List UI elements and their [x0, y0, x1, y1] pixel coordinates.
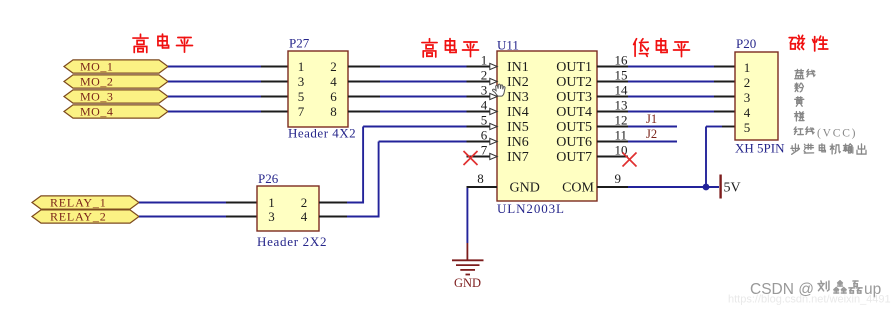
pin stub U11 pin 12 [597, 126, 628, 128]
pin stub P26 pin 4 [319, 216, 347, 218]
svg-text:COM: COM [562, 181, 594, 196]
ground symbol bars [452, 259, 484, 261]
svg-text:J1: J1 [646, 112, 657, 126]
net label flag MO_4 [64, 105, 168, 118]
svg-text:3: 3 [744, 90, 751, 105]
svg-text:P26: P26 [258, 171, 279, 186]
pin stub P20 pin 3 [714, 96, 735, 98]
pin stub U11 pin 2 [467, 81, 498, 83]
svg-text:3: 3 [298, 74, 305, 89]
svg-text:OUT1: OUT1 [556, 60, 592, 75]
annotation red-wire VCC label [794, 127, 803, 135]
svg-text:RELAY_2: RELAY_2 [50, 210, 107, 224]
svg-text:OUT4: OUT4 [556, 105, 592, 120]
svg-text:GND: GND [454, 276, 481, 290]
annotation high-level 2 [422, 39, 437, 57]
power symbol 5V bar [719, 175, 721, 199]
annotation magnetic [789, 35, 804, 49]
net label flag MO_2 [64, 75, 168, 88]
U11 input arrow pin 1 [490, 63, 497, 69]
svg-text:OUT3: OUT3 [556, 90, 592, 105]
svg-text:4: 4 [744, 105, 751, 120]
svg-text:9: 9 [615, 171, 622, 186]
svg-text:2: 2 [301, 195, 308, 210]
pin stub P20 pin 2 [714, 81, 735, 83]
svg-text:4: 4 [481, 98, 488, 113]
svg-text:OUT5: OUT5 [556, 120, 592, 135]
U11 input arrow pin 6 [490, 138, 497, 144]
svg-text:7: 7 [481, 143, 488, 158]
svg-text:MO_3: MO_3 [80, 90, 113, 104]
svg-text:IN2: IN2 [507, 75, 529, 90]
wire P26 pin 4 horizontal [347, 216, 380, 218]
svg-text:Header 2X2: Header 2X2 [257, 234, 327, 249]
pin stub P26 pin 3 [226, 216, 257, 218]
pin stub P27 pin 7 [261, 111, 288, 113]
wire U11 pin 8 to ground [466, 188, 468, 243]
svg-text:J2: J2 [646, 127, 657, 141]
pin stub U11 pin 3 [467, 96, 498, 98]
wire U11 OUT2 to P20 pin 2 [628, 81, 714, 83]
svg-text:OUT6: OUT6 [556, 135, 592, 150]
pin stub P27 pin 2 [348, 66, 380, 68]
pin stub U11 pin 5 [467, 126, 498, 128]
pin stub U11 pin 4 [467, 111, 498, 113]
ground symbol lead [466, 243, 468, 260]
svg-text:P20: P20 [736, 36, 756, 51]
connector P27 Header 4X2 body [288, 51, 348, 127]
svg-text:IN3: IN3 [507, 90, 529, 105]
pin stub U11 pin 10 [597, 156, 628, 158]
svg-text:IN7: IN7 [507, 150, 529, 165]
junction node COM/5V [703, 184, 710, 191]
svg-text:RELAY_1: RELAY_1 [50, 196, 107, 210]
annotation pink label [795, 83, 804, 92]
pin stub P27 pin 3 [261, 81, 288, 83]
svg-text:13: 13 [615, 98, 628, 113]
pin stub U11 pin 6 [467, 141, 498, 143]
wire P27 pin 4 to U11 IN2 [380, 81, 467, 83]
wire MO_3 to P27 pin 5 [168, 96, 261, 98]
pin stub U11 pin 8 [467, 186, 498, 188]
svg-text:MO_1: MO_1 [80, 60, 113, 74]
wire net J1 from U11 pin 12 [628, 126, 677, 128]
wire U11 OUT1 to P20 pin 1 [628, 66, 714, 68]
svg-text:ULN2003L: ULN2003L [497, 201, 565, 216]
svg-text:3: 3 [481, 83, 488, 98]
pin stub P27 pin 5 [261, 96, 288, 98]
svg-text:8: 8 [477, 171, 484, 186]
net label flag RELAY_1 [32, 196, 139, 209]
svg-text:8: 8 [330, 104, 337, 119]
pin stub P26 pin 2 [319, 202, 347, 204]
svg-text:2: 2 [744, 75, 751, 90]
svg-text:2: 2 [481, 68, 488, 83]
svg-text:MO_4: MO_4 [80, 105, 113, 119]
svg-text:3: 3 [268, 209, 275, 224]
svg-text:5: 5 [298, 89, 305, 104]
pin stub P20 pin 1 [714, 66, 735, 68]
U11 input arrow pin 7 [490, 153, 497, 159]
svg-text:https://blog.csdn.net/weixin_4: https://blog.csdn.net/weixin_4491 [728, 294, 891, 306]
svg-text:11: 11 [615, 128, 628, 143]
svg-text:OUT2: OUT2 [556, 75, 592, 90]
pin stub U11 pin 1 [467, 66, 498, 68]
svg-text:U11: U11 [497, 37, 519, 52]
no-connect X on U11 pin 7 [464, 151, 478, 165]
svg-text:MO_2: MO_2 [80, 75, 113, 89]
svg-text:14: 14 [615, 83, 629, 98]
annotation orange label [795, 112, 805, 121]
svg-text:6: 6 [330, 89, 337, 104]
U11 input arrow pin 2 [490, 78, 497, 84]
annotation high-level 1 [133, 34, 148, 52]
connector P26 Header 2X2 body [257, 186, 319, 231]
svg-text:XH 5PIN: XH 5PIN [735, 141, 785, 156]
svg-text:6: 6 [481, 128, 488, 143]
svg-text:4: 4 [301, 209, 308, 224]
wire MO_2 to P27 pin 3 [168, 81, 261, 83]
svg-text:IN5: IN5 [507, 120, 529, 135]
svg-text:1: 1 [298, 59, 305, 74]
annotation stepper motor output [791, 144, 800, 154]
pin stub P27 pin 8 [348, 111, 380, 113]
wire net J2 from U11 pin 11 [628, 141, 677, 143]
pin stub P20 pin 5 [722, 126, 735, 128]
svg-text:OUT7: OUT7 [556, 150, 592, 165]
net label flag RELAY_2 [32, 210, 139, 223]
wire U11 OUT3 to P20 pin 3 [628, 96, 714, 98]
svg-text:P27: P27 [289, 36, 310, 51]
wire vertical to U11 IN6 [378, 142, 380, 218]
svg-text:IN4: IN4 [507, 105, 529, 120]
U11 input arrow pin 3 [490, 93, 497, 99]
svg-text:5: 5 [744, 120, 751, 135]
svg-text:(VCC): (VCC) [817, 128, 857, 140]
pin stub P27 pin 1 [261, 66, 288, 68]
pin stub U11 pin 15 [597, 81, 628, 83]
svg-text:5V: 5V [724, 181, 741, 196]
wire horizontal to U11 IN5 [363, 126, 466, 128]
pin stub U11 pin 14 [597, 96, 628, 98]
svg-text:1: 1 [744, 60, 751, 75]
wire vertical to U11 IN5 [362, 127, 364, 204]
wire junction up to P20 pin 5 [705, 127, 707, 188]
wire U11 OUT4 to P20 pin 4 [628, 111, 714, 113]
wire P27 pin 2 to U11 IN1 [380, 66, 467, 68]
svg-text:1: 1 [481, 53, 488, 68]
svg-text:IN1: IN1 [507, 60, 529, 75]
svg-text:4: 4 [330, 74, 337, 89]
svg-text:5: 5 [481, 113, 488, 128]
wire P27 pin 6 to U11 IN3 [380, 96, 467, 98]
wire RELAY_2 to P26 [139, 216, 226, 218]
wire MO_4 to P27 pin 7 [168, 111, 261, 113]
wire RELAY_1 to P26 [139, 202, 226, 204]
svg-text:16: 16 [615, 53, 629, 68]
watermark CJK name [818, 281, 829, 291]
U11 input arrow pin 5 [490, 123, 497, 129]
net label flag MO_1 [64, 60, 168, 73]
pin stub U11 pin 9 [597, 186, 628, 188]
svg-text:IN6: IN6 [507, 135, 529, 150]
pin stub U11 pin 16 [597, 66, 628, 68]
pin stub U11 pin 13 [597, 111, 628, 113]
connector P20 XH 5PIN body [735, 52, 778, 140]
wire horizontal to U11 IN6 [379, 141, 467, 143]
pin stub P26 pin 1 [226, 202, 257, 204]
wire P27 pin 8 to U11 IN4 [380, 111, 467, 113]
pin stub U11 pin 11 [597, 141, 628, 143]
pin stub P27 pin 4 [348, 81, 380, 83]
svg-text:Header 4X2: Header 4X2 [288, 126, 356, 141]
wire P26 pin 2 horizontal [347, 202, 364, 204]
annotation blue-wire label [795, 69, 804, 78]
svg-text:12: 12 [615, 113, 628, 128]
svg-text:2: 2 [330, 59, 337, 74]
wire MO_1 to P27 pin 1 [168, 66, 261, 68]
U11 input arrow pin 4 [490, 108, 497, 114]
svg-text:1: 1 [268, 195, 275, 210]
mouse hand cursor artifact [493, 84, 506, 96]
net label flag MO_3 [64, 90, 168, 103]
IC U11 ULN2003L body [497, 51, 597, 201]
svg-text:GND: GND [510, 181, 540, 196]
pin stub U11 pin 7 [467, 156, 498, 158]
wire U11 COM to 5V [628, 186, 719, 188]
annotation low-level [634, 39, 649, 57]
svg-text:7: 7 [298, 104, 305, 119]
pin stub P20 pin 4 [714, 111, 735, 113]
annotation yellow label [795, 97, 804, 107]
no-connect X on U11 pin 10 [623, 153, 637, 167]
svg-text:15: 15 [615, 68, 628, 83]
wire to P20 pin 5 [706, 126, 722, 128]
pin stub P27 pin 6 [348, 96, 380, 98]
